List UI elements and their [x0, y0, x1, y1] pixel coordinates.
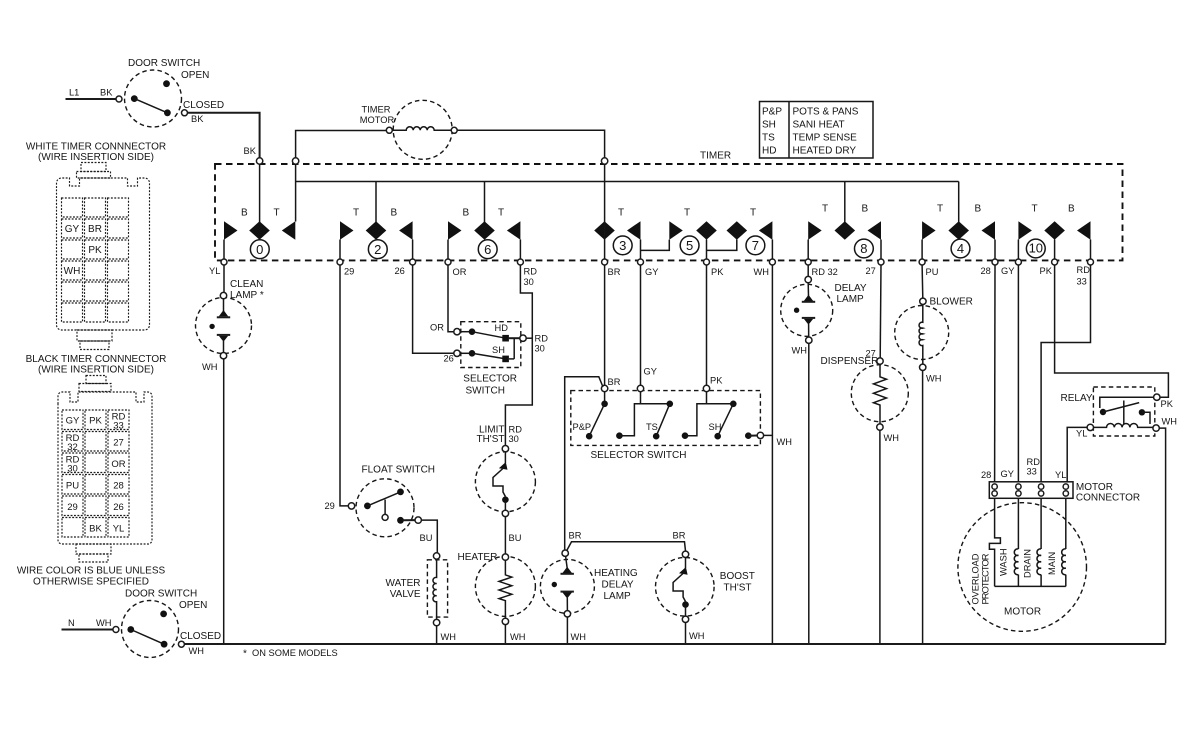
svg-text:L1: L1 [69, 88, 79, 98]
switch arm [134, 99, 167, 113]
switch arm [131, 630, 164, 645]
wire OR to selector switch [448, 265, 454, 332]
timer bottom pass-through nodes [221, 259, 1094, 265]
svg-text:HEATER: HEATER [458, 552, 498, 563]
open contact [160, 611, 167, 618]
svg-text:HEATING: HEATING [594, 568, 638, 579]
wire PK timer to selector switch [706, 265, 708, 385]
svg-text:28: 28 [981, 266, 991, 276]
svg-text:T: T [937, 204, 943, 215]
svg-text:4: 4 [957, 241, 964, 256]
node at timer top (motor right) [601, 158, 607, 164]
svg-text:RD: RD [509, 425, 523, 435]
svg-text:OR: OR [453, 267, 467, 277]
svg-text:PK: PK [710, 376, 723, 386]
svg-text:P&P: P&P [573, 422, 592, 432]
svg-text:YL: YL [1076, 429, 1087, 439]
svg-text:OPEN: OPEN [181, 70, 209, 81]
svg-text:B: B [975, 204, 982, 215]
WH output [745, 432, 752, 439]
selector output joins RD30 [526, 337, 532, 339]
svg-text:RD 32: RD 32 [812, 267, 838, 277]
winding common wire [995, 585, 1066, 587]
svg-text:PK: PK [711, 267, 724, 277]
cam contact 2 [340, 182, 413, 260]
svg-text:PU: PU [66, 481, 79, 492]
cam contact 7 [707, 208, 773, 260]
svg-text:TEMP SENSE: TEMP SENSE [793, 133, 858, 144]
wire BU float switch to water valve [421, 520, 437, 553]
svg-text:GY: GY [645, 267, 658, 277]
timer dashed box [215, 164, 1123, 260]
svg-text:SWITCH: SWITCH [466, 386, 505, 397]
svg-text:LAMP: LAMP [604, 591, 632, 602]
svg-text:26: 26 [444, 354, 454, 364]
svg-text:T: T [750, 208, 756, 219]
door switch S2 (bottom) [62, 589, 222, 658]
svg-text:TIMER: TIMER [700, 151, 731, 162]
svg-text:WH: WH [754, 267, 770, 277]
svg-text:SANI HEAT: SANI HEAT [793, 120, 845, 131]
svg-text:28: 28 [981, 470, 991, 480]
svg-text:BLACK TIMER CONNNECTOR: BLACK TIMER CONNNECTOR [26, 354, 167, 365]
svg-text:30: 30 [509, 434, 519, 444]
clean lamp [196, 279, 264, 372]
svg-text:WHITE TIMER CONNNECTOR: WHITE TIMER CONNNECTOR [26, 142, 166, 153]
wire GY to motor connector [1017, 265, 1019, 482]
svg-text:PU: PU [926, 267, 939, 277]
svg-text:RD: RD [1027, 457, 1041, 467]
svg-text:BK: BK [191, 114, 204, 124]
svg-text:BU: BU [509, 533, 522, 543]
svg-text:PK: PK [1040, 266, 1053, 276]
svg-text:WH: WH [96, 618, 112, 628]
svg-text:WH: WH [777, 437, 793, 447]
wire labels below timer [209, 265, 1090, 287]
node at timer top (motor left) [292, 158, 298, 164]
svg-text:GY: GY [644, 367, 657, 377]
note: wire color [17, 566, 166, 588]
svg-text:T: T [498, 208, 504, 219]
svg-text:TH'ST: TH'ST [476, 434, 504, 445]
open contact [163, 80, 170, 87]
timer internal bus [296, 181, 959, 183]
svg-text:N: N [68, 618, 75, 628]
wire BR timer to selector switch [604, 265, 606, 385]
svg-text:SH: SH [709, 422, 722, 432]
svg-text:CLEAN: CLEAN [230, 279, 263, 290]
svg-text:WH: WH [64, 266, 81, 277]
svg-text:WH: WH [510, 632, 526, 642]
svg-text:28: 28 [113, 481, 124, 492]
legend box [760, 102, 874, 159]
wire 29 to float switch [340, 265, 348, 506]
wire RD32 to delay lamp [807, 265, 809, 276]
svg-text:33: 33 [113, 421, 124, 432]
svg-text:PROTECTOR: PROTECTOR [980, 553, 990, 604]
TS switch [616, 432, 623, 439]
svg-text:MOTOR: MOTOR [1004, 607, 1041, 618]
svg-text:29: 29 [67, 502, 78, 513]
svg-text:MOTOR: MOTOR [1076, 482, 1113, 493]
svg-text:RD: RD [1077, 265, 1091, 275]
door switch S1 (top) [66, 58, 260, 158]
wire GY timer to selector switch [640, 265, 642, 385]
cam contact 0 [224, 164, 296, 259]
svg-text:30: 30 [67, 464, 78, 475]
svg-text:PK: PK [89, 416, 102, 427]
selector switch (P&P/TS/SH) [571, 385, 792, 461]
pin grid black [62, 410, 129, 537]
heater [458, 552, 536, 644]
svg-text:27: 27 [866, 266, 876, 276]
svg-text:B: B [241, 208, 248, 219]
svg-text:DRAIN: DRAIN [1023, 549, 1033, 578]
svg-text:HD: HD [495, 323, 509, 333]
svg-text:SELECTOR: SELECTOR [463, 374, 517, 385]
cam contact 6 [448, 182, 520, 260]
relay coil [1087, 424, 1093, 430]
node BK at timer top [256, 158, 262, 164]
svg-text:(WIRE INSERTION SIDE): (WIRE INSERTION SIDE) [38, 152, 154, 163]
svg-text:FLOAT SWITCH: FLOAT SWITCH [362, 465, 436, 476]
svg-text:0: 0 [256, 242, 263, 257]
wire YL relay to motor connector [1067, 427, 1087, 481]
svg-text:DOOR SWITCH: DOOR SWITCH [125, 589, 197, 600]
pin grid white [62, 198, 129, 322]
svg-text:10: 10 [1029, 241, 1043, 256]
svg-text:LAMP: LAMP [837, 294, 865, 305]
wire WH timer down to bus [771, 265, 773, 644]
svg-text:33: 33 [1027, 467, 1037, 477]
svg-text:YL: YL [1055, 470, 1066, 480]
svg-text:T: T [274, 208, 280, 219]
svg-text:BU: BU [420, 533, 433, 543]
svg-text:OVERLOAD: OVERLOAD [971, 553, 981, 604]
svg-text:VALVE: VALVE [390, 589, 421, 600]
svg-text:2: 2 [374, 242, 381, 257]
svg-text:CLOSED: CLOSED [180, 631, 221, 642]
svg-text:OPEN: OPEN [179, 600, 207, 611]
svg-text:POTS & PANS: POTS & PANS [793, 107, 859, 118]
delay lamp [781, 276, 867, 644]
svg-text:OR: OR [430, 323, 444, 333]
svg-text:T: T [618, 208, 624, 219]
wire BU thermostat to heater [504, 517, 506, 554]
svg-text:(WIRE INSERTION SIDE): (WIRE INSERTION SIDE) [38, 365, 154, 376]
dispenser [821, 356, 909, 644]
cam contact 5 [669, 208, 717, 260]
svg-text:WH: WH [441, 632, 457, 642]
svg-text:OTHERWISE SPECIFIED: OTHERWISE SPECIFIED [33, 577, 149, 588]
svg-text:29: 29 [344, 267, 354, 277]
svg-text:TIMER: TIMER [362, 105, 391, 115]
coil L1 [392, 127, 451, 131]
wire 26 to selector switch [413, 265, 454, 353]
svg-text:TS: TS [762, 133, 775, 144]
white timer connector [26, 142, 166, 350]
svg-text:BR: BR [608, 377, 621, 387]
svg-text:WH: WH [926, 374, 942, 384]
svg-text:7: 7 [752, 238, 759, 253]
svg-text:SH: SH [492, 345, 505, 355]
svg-text:DISPENSER: DISPENSER [821, 356, 879, 367]
heating delay lamp [540, 550, 638, 644]
svg-text:MOTOR: MOTOR [360, 115, 395, 125]
main winding [1065, 498, 1067, 549]
selector switch (HD/SH) [454, 322, 548, 397]
wire YL to clean lamp [223, 265, 225, 293]
svg-text:WH: WH [884, 433, 900, 443]
motor connector [989, 482, 1140, 504]
wire RD33 to motor connector [1041, 265, 1090, 482]
float switch [348, 465, 435, 537]
wire L1 in [66, 98, 117, 100]
svg-text:T: T [822, 204, 828, 215]
svg-text:ON SOME MODELS: ON SOME MODELS [252, 648, 338, 658]
wire 28 to motor connector [994, 265, 996, 482]
svg-text:WH: WH [689, 631, 705, 641]
wire motor right to contact 3 [457, 130, 604, 158]
svg-text:BK: BK [100, 88, 113, 98]
svg-text:B: B [391, 208, 398, 219]
overload protector [994, 498, 996, 536]
svg-text:LAMP *: LAMP * [230, 290, 264, 301]
svg-text:B: B [862, 204, 869, 215]
relay armature [1103, 403, 1139, 412]
svg-text:30: 30 [535, 344, 545, 354]
bottom bus wire N [184, 643, 1165, 645]
svg-text:OR: OR [111, 459, 125, 470]
wire N in [62, 629, 113, 631]
svg-text:TH'ST: TH'ST [724, 583, 752, 594]
svg-text:33: 33 [1077, 277, 1087, 287]
relay [1061, 387, 1178, 436]
P&P switch [604, 392, 606, 404]
svg-text:WH: WH [202, 362, 218, 372]
svg-text:CONNECTOR: CONNECTOR [1076, 493, 1140, 504]
svg-text:HD: HD [762, 146, 776, 157]
svg-text:RD: RD [535, 334, 549, 344]
svg-text:B: B [1068, 204, 1075, 215]
svg-text:HEATED DRY: HEATED DRY [793, 146, 857, 157]
svg-text:*: * [243, 649, 247, 660]
svg-text:30: 30 [524, 277, 534, 287]
cam contact 8 [808, 182, 881, 260]
svg-text:GY: GY [65, 224, 80, 235]
svg-text:GY: GY [66, 416, 80, 427]
wire BR branch to heating delay lamp [565, 377, 603, 550]
timer motor [296, 100, 605, 164]
svg-text:PK: PK [1161, 399, 1174, 409]
svg-text:WASH: WASH [999, 548, 1009, 576]
svg-text:DELAY: DELAY [835, 283, 867, 294]
svg-text:BR: BR [673, 531, 686, 541]
svg-text:TS: TS [646, 422, 658, 432]
svg-text:26: 26 [113, 502, 124, 513]
svg-text:YL: YL [209, 266, 220, 276]
svg-text:WH: WH [189, 646, 205, 656]
cam contact 3 [594, 164, 669, 259]
svg-text:WH: WH [1162, 417, 1178, 427]
wire BR to boost thermostat [567, 542, 686, 551]
svg-text:3: 3 [619, 238, 626, 253]
svg-text:RD: RD [524, 267, 538, 277]
black timer connector [26, 354, 167, 562]
wash winding [1017, 498, 1019, 549]
wire PK to relay [1055, 265, 1169, 397]
SH switch [682, 432, 689, 439]
svg-text:SH: SH [762, 120, 776, 131]
cam contact 10 [1018, 204, 1090, 260]
svg-text:WH: WH [571, 632, 587, 642]
svg-text:CLOSED: CLOSED [183, 100, 224, 111]
svg-text:27: 27 [113, 438, 124, 449]
svg-text:B: B [463, 208, 470, 219]
svg-text:T: T [1032, 204, 1038, 215]
limit thermostat [475, 425, 535, 517]
svg-text:P&P: P&P [762, 107, 782, 118]
wire WH clean lamp to bottom bus [223, 359, 225, 644]
svg-text:BR: BR [88, 224, 102, 235]
svg-text:DOOR SWITCH: DOOR SWITCH [128, 58, 200, 69]
svg-text:BK: BK [89, 524, 102, 535]
wire to motor left [296, 131, 387, 165]
svg-text:WH: WH [792, 346, 808, 356]
cam contact 4 [922, 182, 995, 260]
jog contact3 to contact5 [641, 240, 670, 251]
svg-text:BK: BK [244, 146, 257, 156]
boost thermostat [656, 551, 755, 644]
wire PU to blower [921, 265, 924, 298]
svg-text:BLOWER: BLOWER [930, 297, 973, 308]
svg-text:5: 5 [686, 238, 693, 253]
svg-text:WIRE COLOR IS BLUE UNLESS: WIRE COLOR IS BLUE UNLESS [17, 566, 166, 577]
svg-text:BOOST: BOOST [720, 571, 755, 582]
motor [958, 498, 1087, 631]
wire WH relay to bottom bus [1159, 428, 1165, 643]
svg-text:MAIN: MAIN [1047, 552, 1057, 575]
svg-text:26: 26 [395, 266, 405, 276]
svg-text:32: 32 [67, 442, 78, 453]
svg-text:RELAY: RELAY [1061, 393, 1093, 404]
svg-text:WATER: WATER [386, 578, 421, 589]
svg-text:T: T [684, 208, 690, 219]
svg-text:YL: YL [113, 524, 125, 535]
svg-text:BR: BR [569, 531, 582, 541]
svg-text:PK: PK [88, 245, 102, 256]
drain winding [1040, 498, 1042, 549]
svg-text:BR: BR [608, 267, 621, 277]
svg-text:29: 29 [325, 501, 335, 511]
svg-text:GY: GY [1001, 266, 1014, 276]
wire 27 to dispenser [879, 265, 882, 358]
svg-text:GY: GY [1001, 469, 1014, 479]
wire RD30 timer to limit thermostat [505, 265, 532, 446]
water valve [386, 553, 457, 644]
svg-text:6: 6 [484, 242, 491, 257]
svg-text:T: T [353, 208, 359, 219]
svg-text:SELECTOR SWITCH: SELECTOR SWITCH [591, 450, 687, 461]
wire BK to timer [188, 113, 260, 158]
svg-text:DELAY: DELAY [602, 580, 634, 591]
svg-text:8: 8 [860, 241, 867, 256]
blower [895, 297, 973, 645]
